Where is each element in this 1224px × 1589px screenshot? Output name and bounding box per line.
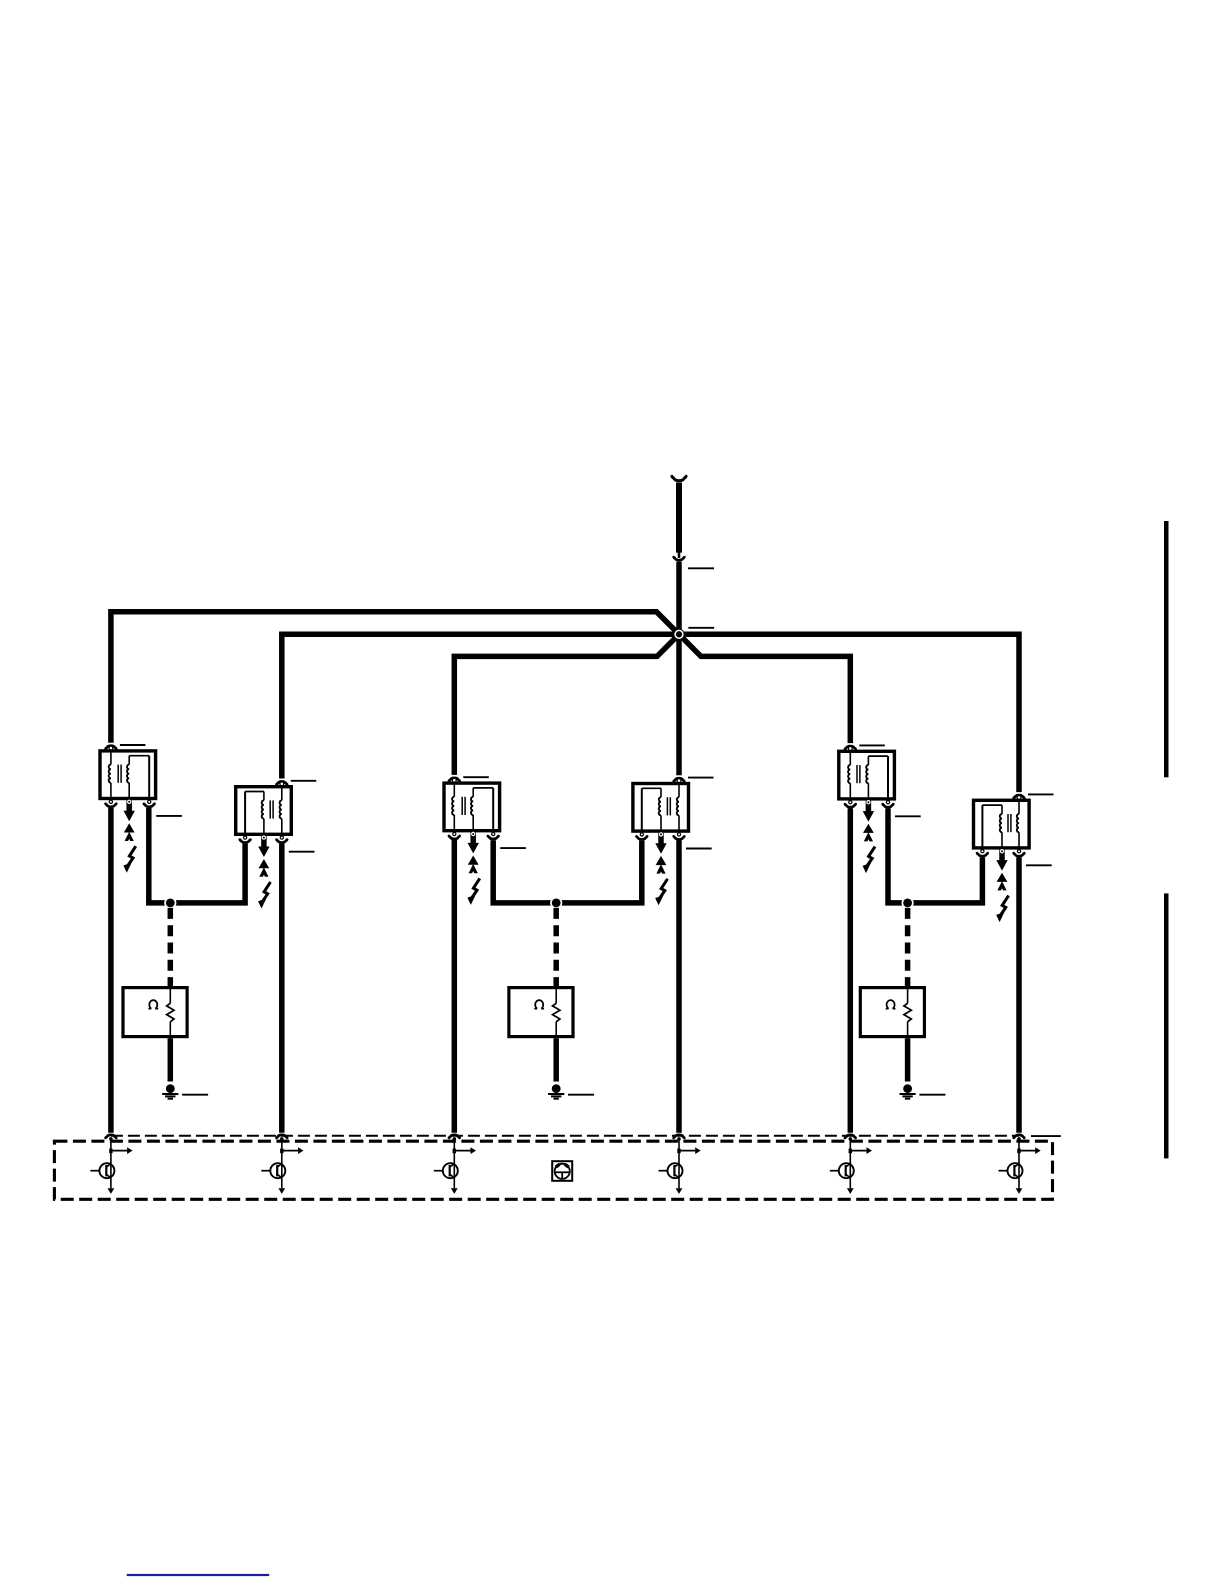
wire: power feed lower segment to splice and down to coil N4 — [676, 562, 682, 776]
ground symbol R2 — [548, 1084, 564, 1099]
suppression resistor R3 (box with ohm symbol) — [860, 986, 924, 1038]
wire: dashed lead from junction to suppression resistor R1 — [168, 908, 174, 987]
wire: coil N3 branch - splice - coil N5 branch (lower horizontal) — [454, 634, 850, 775]
driver transistor T3 — [434, 1163, 458, 1194]
driver transistor T1 — [90, 1163, 114, 1194]
coil N1 bottom terminal label leader — [156, 815, 182, 817]
ground symbol R3 — [900, 1084, 916, 1099]
T5 branch arrow to internal circuit — [849, 1147, 872, 1154]
wire: N2 primary down to ECU — [279, 844, 285, 1133]
coil N6 bottom left terminal connector — [977, 850, 988, 857]
T2 branch arrow to internal circuit — [280, 1147, 303, 1154]
wire: N4 primary down to ECU — [676, 840, 682, 1132]
coil N5 bottom left terminal connector — [845, 801, 856, 808]
driver transistor T4 collector wire — [678, 1139, 680, 1188]
wire: N1 primary down to ECU — [108, 808, 114, 1133]
coil N3 spark gap arrow — [468, 856, 479, 874]
coil N4 spark plug lightning bolt — [655, 879, 667, 906]
ECU pin entry connector for T4 — [674, 1135, 685, 1141]
wire: N6 primary down to ECU — [1016, 857, 1022, 1133]
junction node pair 1-2 — [164, 897, 176, 909]
coil N5 spark gap arrow — [863, 824, 874, 842]
wire: N3 primary down to ECU — [452, 840, 458, 1133]
driver transistor T4 — [659, 1163, 683, 1194]
wire: N5 primary down to ECU — [848, 808, 854, 1132]
ECU internal dashed bus line — [111, 1135, 1019, 1137]
page section marker bar lower right — [1164, 893, 1169, 1158]
ground R3 label leader — [919, 1094, 945, 1096]
coil N6 top terminal connector — [1014, 795, 1025, 799]
ECU pin entry connector for T3 — [449, 1135, 460, 1141]
coil N4 spark gap arrow — [656, 856, 667, 874]
coil N1 bottom right terminal connector — [144, 800, 155, 807]
ECU diagnostic symbol (circle in box) — [552, 1161, 572, 1181]
wire: resistor R2 to ground — [553, 1038, 559, 1081]
ground R1 label leader — [182, 1094, 208, 1096]
T3 branch arrow to internal circuit — [453, 1147, 476, 1154]
coil N3 top terminal label leader — [463, 776, 489, 778]
wire: power feed upper segment — [676, 483, 682, 553]
coil N2 spark plug lightning bolt — [258, 882, 270, 909]
ECU label leader — [1031, 1135, 1061, 1137]
driver transistor T5 — [830, 1163, 854, 1194]
ground symbol R1 — [162, 1084, 178, 1099]
coil N3 HV output arrow — [468, 832, 479, 853]
coil N2 HV output arrow — [258, 836, 269, 857]
splice label leader — [688, 627, 714, 629]
wire: coil N1/N2 secondary return loop — [149, 808, 245, 903]
ECU pin entry connector for T2 — [277, 1135, 288, 1141]
coil N4 top terminal label leader — [688, 777, 714, 779]
coil N2 bottom terminal label leader — [289, 851, 315, 853]
coil N4 bottom terminal label leader — [686, 848, 712, 850]
coil N2 top terminal connector — [277, 781, 288, 785]
coil N3 top terminal connector — [449, 778, 460, 782]
coil N4 top terminal connector — [674, 778, 685, 782]
page section marker bar upper right — [1164, 521, 1169, 777]
wire: dashed lead from junction to suppression resistor R2 — [553, 908, 559, 987]
ECU pin entry connector for T5 — [845, 1135, 856, 1141]
coil N1 spark gap arrow — [124, 823, 135, 841]
T4 branch arrow to internal circuit — [677, 1147, 700, 1154]
wire: splice to coil N1 (upper left branch) — [111, 612, 679, 743]
coil N2 bottom left terminal connector — [240, 836, 251, 843]
suppression resistor R2 (box with ohm symbol) — [509, 986, 573, 1038]
wire: resistor R3 to ground — [905, 1038, 911, 1081]
driver transistor T2 collector wire — [281, 1139, 283, 1188]
wire: coil N5/N6 secondary return loop — [888, 808, 982, 903]
coil N4 bottom left terminal connector — [637, 833, 648, 840]
coil N2 spark gap arrow — [259, 859, 270, 877]
coil N2 bottom right terminal connector — [277, 836, 288, 843]
ignition coil N6 — [974, 799, 1030, 850]
coil N6 bottom terminal label leader — [1026, 864, 1052, 866]
ground R2 label leader — [568, 1094, 594, 1096]
ignition coil N5 — [839, 750, 895, 801]
coil N4 bottom right terminal connector — [674, 833, 685, 840]
coil N5 top terminal connector — [845, 746, 856, 750]
coil N3 spark plug lightning bolt — [467, 878, 479, 905]
coil N6 top terminal label leader — [1028, 793, 1054, 795]
coil N3 bottom left terminal connector — [449, 832, 460, 839]
footer hyperlink underline — [127, 1574, 270, 1576]
wire: coil N2 branch - splice - coil N6 branch (middle horizontal) — [282, 634, 1019, 792]
coil N5 bottom terminal label leader — [895, 815, 921, 817]
coil N6 HV output arrow — [996, 850, 1007, 871]
coil N5 spark plug lightning bolt — [863, 847, 875, 874]
driver transistor T3 collector wire — [453, 1139, 455, 1188]
coil N1 spark plug lightning bolt — [123, 846, 135, 873]
T6 branch arrow to internal circuit — [1017, 1147, 1040, 1154]
coil N3 bottom terminal label leader — [500, 847, 526, 849]
coil N2 top terminal label leader — [291, 780, 317, 782]
wire: resistor R1 to ground — [168, 1038, 174, 1081]
ECU pin entry connector for T1 — [106, 1135, 117, 1141]
coil N1 HV output arrow — [124, 800, 135, 821]
ECU pin entry connector for T6 — [1014, 1135, 1025, 1141]
ignition coil N4 — [633, 782, 689, 833]
driver transistor T6 collector wire — [1018, 1139, 1020, 1188]
coil N5 top terminal label leader — [859, 744, 885, 746]
driver transistor T6 — [999, 1163, 1023, 1194]
coil N3 bottom right terminal connector — [488, 832, 499, 839]
driver transistor T2 — [261, 1163, 285, 1194]
driver transistor T5 collector wire — [849, 1139, 851, 1188]
junction node pair 5-6 — [902, 897, 914, 909]
engine control unit dashed outline box — [54, 1141, 1052, 1199]
coil N6 spark plug lightning bolt — [996, 896, 1008, 923]
coil N1 bottom left terminal connector — [106, 800, 117, 807]
wire: coil N3/N4 secondary return loop — [493, 840, 642, 903]
suppression resistor R1 (box with ohm symbol) — [123, 986, 187, 1038]
coil N5 bottom right terminal connector — [883, 801, 894, 808]
ignition coil N2 — [236, 785, 292, 836]
coil N6 spark gap arrow — [997, 873, 1008, 891]
ignition coil N3 — [444, 781, 500, 832]
wire: dashed lead from junction to suppression resistor R3 — [905, 908, 911, 987]
coil N1 top terminal label leader — [120, 744, 145, 746]
coil N1 top terminal connector — [106, 746, 117, 750]
splice node of ignition feed — [673, 629, 684, 640]
driver transistor T1 collector wire — [110, 1139, 112, 1188]
coil N5 HV output arrow — [863, 801, 874, 822]
power feed continuation connector (top) — [672, 476, 686, 480]
junction node pair 3-4 — [550, 897, 562, 909]
ignition coil N1 — [100, 749, 156, 800]
inline connector label leader — [688, 567, 714, 569]
coil N6 bottom right terminal connector — [1014, 850, 1025, 857]
coil N4 HV output arrow — [655, 833, 666, 854]
T1 branch arrow to internal circuit — [109, 1147, 132, 1154]
inline connector pair on power feed — [674, 552, 685, 560]
